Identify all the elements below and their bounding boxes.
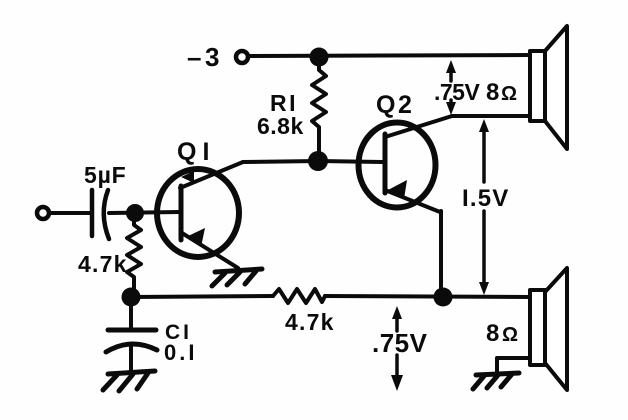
input terminal [37,207,49,219]
bottom rail wire left [131,296,273,297]
capacitor C1 [106,300,157,373]
wire input to capacitor [50,211,90,215]
svg-text:.75V: .75V [372,328,428,358]
speaker top [530,26,567,149]
svg-text:0.I: 0.I [164,340,197,365]
svg-text:Ω: Ω [501,83,517,105]
wire Q2 emitter down [439,211,443,297]
resistor 4.7k horizontal [273,289,325,303]
wire Q1 collector to mid node [243,161,319,162]
resistor 4.7k vertical [127,215,141,297]
wire capacitor to Q1 base [109,212,180,213]
svg-text:4.7k: 4.7k [78,251,128,277]
svg-text:I.5V: I.5V [462,185,510,212]
svg-text:Ω: Ω [502,324,518,346]
svg-text:8: 8 [486,320,499,347]
svg-text:8: 8 [486,79,499,106]
wire mid node to Q2 base [319,161,384,162]
bottom rail wire right [325,296,530,297]
ground under bottom speaker [473,373,519,389]
wire bottom speaker to ground [497,358,530,373]
transistor Q2 [359,116,453,212]
transistor Q1 [157,162,243,268]
ground under C1 [103,371,155,391]
svg-text:5µF: 5µF [84,162,127,188]
top rail wire [249,55,530,56]
node input junction [126,204,144,222]
node bottom-right junction [434,288,453,307]
annotation .75V bottom [372,306,428,391]
capacitor 5uF [92,190,109,239]
resistor R1 [312,60,326,161]
svg-text:6.8k: 6.8k [257,113,304,139]
node top rail [310,48,329,67]
svg-text:.75V: .75V [434,79,480,105]
svg-text:Q2: Q2 [376,91,414,119]
node mid junction [308,151,328,171]
supply terminal -3 [236,51,248,63]
node bottom-left junction [122,288,141,307]
speaker bottom [530,268,567,390]
ground under Q1 [212,269,262,286]
annotation 1.5V [462,119,510,295]
annotation .75V top [434,60,480,115]
svg-text:4.7k: 4.7k [285,309,335,335]
svg-text:QI: QI [177,138,215,166]
svg-text:–3: –3 [187,42,223,72]
wire Q2 collector to top speaker [452,114,530,118]
